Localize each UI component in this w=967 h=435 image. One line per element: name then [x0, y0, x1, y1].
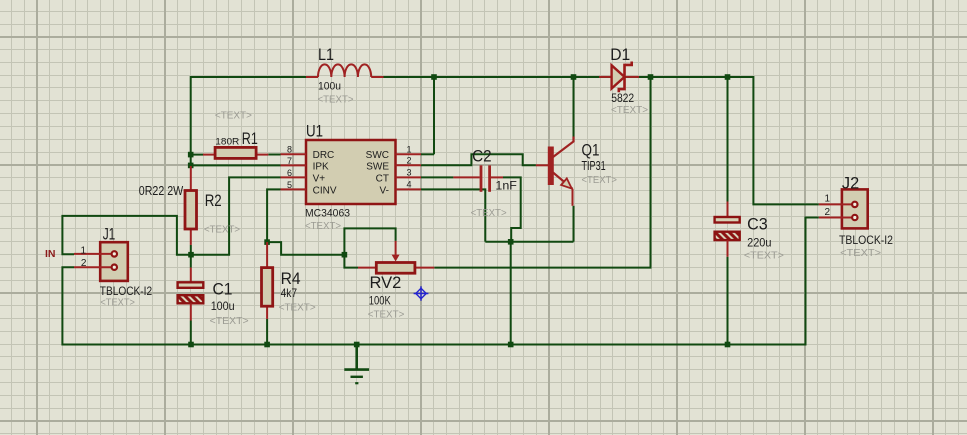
- node ground rail / C1: [188, 342, 194, 348]
- svg-text:3: 3: [407, 167, 412, 177]
- node rail/RV2 junction: [648, 74, 654, 80]
- svg-text:5822: 5822: [611, 91, 634, 105]
- svg-text:4k7: 4k7: [281, 286, 298, 300]
- svg-text:<TEXT>: <TEXT>: [215, 109, 252, 121]
- label R2: [139, 184, 240, 235]
- wire R2 bottom to node: [190, 245, 192, 255]
- svg-text:7: 7: [287, 156, 292, 166]
- node CINV/R4 junction: [264, 239, 270, 245]
- svg-text:<TEXT>: <TEXT>: [744, 249, 784, 261]
- svg-text:U1: U1: [306, 122, 323, 141]
- inductor L1: [306, 64, 384, 77]
- wire pin8 DRC stub to R1: [191, 154, 203, 156]
- wire pin4 V- down to emitter row: [421, 189, 485, 241]
- label Q1: [582, 141, 617, 187]
- wire pin7 IPK row: [191, 164, 281, 166]
- pin 5 stub: [281, 188, 307, 190]
- svg-text:C2: C2: [472, 147, 492, 166]
- ground: [344, 345, 369, 384]
- svg-text:MC34063: MC34063: [305, 208, 350, 220]
- pin numbers U1: [287, 144, 412, 190]
- capacitor C1 (electrolytic): [178, 268, 204, 321]
- node ground rail / gnd symbol: [354, 342, 360, 348]
- wire pin1 SWC up to rail: [433, 77, 435, 154]
- svg-text:180R: 180R: [215, 136, 239, 147]
- label D1: [610, 45, 648, 116]
- label C2: [471, 147, 517, 220]
- svg-text:TIP31: TIP31: [582, 158, 606, 173]
- wire Q1 emitter bottom: [573, 206, 575, 242]
- svg-text:<TEXT>: <TEXT>: [318, 94, 354, 106]
- svg-text:CT: CT: [376, 173, 389, 184]
- pin names U1: [313, 150, 390, 196]
- wire pin3 CT to C2: [421, 176, 453, 178]
- svg-text:<TEXT>: <TEXT>: [368, 309, 405, 321]
- svg-text:1nF: 1nF: [495, 179, 517, 193]
- svg-text:0R22 2W: 0R22 2W: [139, 184, 184, 198]
- svg-text:<TEXT>: <TEXT>: [582, 174, 617, 186]
- svg-text:100u: 100u: [211, 299, 235, 313]
- resistor R4: [262, 242, 273, 319]
- wire CINV node jog to wiper node: [267, 242, 344, 255]
- wire C1 bottom to ground rail: [190, 321, 192, 345]
- connector J1 TBLOCK-I2: [74, 242, 128, 281]
- connector J2 TBLOCK-I2: [819, 189, 868, 228]
- node rail/pin1 junction: [431, 74, 437, 80]
- origin marker: [414, 286, 429, 301]
- svg-text:4: 4: [407, 179, 412, 189]
- node V+ / R2 / C1 / J1 junction: [188, 252, 194, 258]
- wire wiper node down to RV2 left terminal: [344, 255, 358, 268]
- svg-text:L1: L1: [318, 45, 334, 64]
- label R1: [215, 109, 258, 148]
- svg-text:1: 1: [824, 194, 830, 205]
- wire wiper node up over to RV2 wiper: [344, 228, 395, 254]
- svg-text:<TEXT>: <TEXT>: [210, 315, 249, 327]
- svg-text:6: 6: [287, 168, 292, 178]
- node wiper junction: [342, 252, 348, 258]
- svg-text:CINV: CINV: [313, 185, 337, 196]
- svg-text:TBLOCK-I2: TBLOCK-I2: [839, 235, 893, 247]
- svg-text:<TEXT>: <TEXT>: [471, 207, 507, 219]
- wire top rail from L1 to right corner down to J2 pin1: [384, 77, 819, 204]
- svg-text:<TEXT>: <TEXT>: [100, 297, 134, 309]
- wire C3 bottom to ground rail: [727, 257, 729, 345]
- label J2: [824, 174, 893, 259]
- capacitor C3 (electrolytic): [715, 202, 740, 257]
- potentiometer RV2: [358, 241, 434, 273]
- label J1: [80, 225, 152, 309]
- transistor Q1 TIP31: [536, 137, 574, 206]
- svg-text:100K: 100K: [369, 293, 391, 307]
- svg-text:1: 1: [80, 245, 86, 256]
- svg-text:<TEXT>: <TEXT>: [204, 224, 240, 236]
- wire RV2 right terminal up to rail: [434, 77, 650, 268]
- pin 7 stub: [281, 164, 307, 166]
- capacitor C2: [453, 165, 503, 192]
- label RV2: [368, 273, 405, 321]
- wire pin1 SWC to riser: [421, 153, 434, 155]
- node ground rail / emitter net: [508, 342, 514, 348]
- wire emitter row to ground rail: [510, 242, 512, 345]
- svg-text:SWE: SWE: [366, 161, 389, 172]
- svg-text:D1: D1: [610, 45, 630, 64]
- svg-text:R2: R2: [205, 191, 222, 210]
- node rail/C3 junction: [725, 74, 731, 80]
- svg-text:IN: IN: [45, 248, 56, 260]
- svg-text:5: 5: [287, 180, 292, 190]
- label L1: [318, 45, 354, 106]
- wire pin2 SWE jog to Q1 base: [421, 154, 536, 165]
- wire R1 to pin8 stub: [268, 154, 280, 156]
- svg-text:RV2: RV2: [370, 273, 402, 292]
- wire C3 top to rail: [727, 77, 729, 202]
- pin 2 stub: [396, 164, 422, 166]
- svg-text:2: 2: [407, 155, 412, 165]
- pin 8 stub: [281, 153, 307, 155]
- resistor R1: [203, 147, 268, 158]
- label U1: [305, 122, 350, 233]
- svg-text:DRC: DRC: [313, 150, 335, 161]
- node rail/collector junction: [571, 74, 577, 80]
- svg-text:8: 8: [287, 144, 292, 154]
- label C3: [744, 215, 784, 262]
- svg-text:R1: R1: [242, 129, 258, 148]
- label C1: [210, 280, 249, 328]
- svg-text:220u: 220u: [747, 235, 771, 249]
- svg-text:V+: V+: [313, 173, 326, 184]
- wire emitter row: [485, 241, 573, 243]
- node ground rail / R4: [264, 342, 270, 348]
- svg-text:<TEXT>: <TEXT>: [840, 247, 881, 259]
- pin 3 stub: [396, 176, 422, 178]
- wire C2 right plate down to emitter row: [503, 177, 521, 241]
- pin 6 stub: [281, 176, 307, 178]
- svg-text:2: 2: [824, 207, 830, 218]
- svg-text:2: 2: [81, 258, 87, 269]
- svg-text:V-: V-: [380, 185, 389, 196]
- pin 4 stub: [396, 188, 422, 190]
- svg-text:J1: J1: [103, 225, 116, 244]
- svg-text:<TEXT>: <TEXT>: [611, 104, 648, 116]
- wire Q1 collector to rail: [573, 77, 575, 138]
- diode D1 5822: [599, 62, 639, 93]
- wire node to C1 top: [190, 255, 192, 268]
- node ground rail / C3: [725, 342, 731, 348]
- resistor R2: [185, 166, 197, 245]
- wire pin5 CINV down to R4 node: [267, 189, 280, 242]
- wire top rail left: R1 node up to rail, right to L1: [191, 77, 306, 166]
- node emitter row / ground drop: [508, 239, 514, 245]
- svg-text:<TEXT>: <TEXT>: [279, 302, 316, 314]
- node R2/pin7 junction: [188, 163, 194, 169]
- svg-text:1: 1: [407, 144, 412, 154]
- svg-text:C1: C1: [213, 280, 233, 299]
- svg-text:100u: 100u: [318, 80, 341, 92]
- pin 1 stub: [396, 153, 422, 155]
- node R1/pin8 junction: [188, 152, 194, 158]
- label R4: [279, 269, 316, 314]
- wire J1 pin1 loop to V+ node row and pin 6: [62, 177, 280, 254]
- wire R4 bottom to ground rail: [266, 319, 268, 345]
- svg-text:C3: C3: [747, 215, 768, 234]
- svg-text:J2: J2: [842, 174, 859, 193]
- svg-text:<TEXT>: <TEXT>: [305, 220, 341, 232]
- op-amp U1 MC34063 body: [281, 140, 422, 204]
- svg-text:Q1: Q1: [582, 141, 600, 160]
- svg-text:SWC: SWC: [366, 150, 389, 161]
- wire J1 pin2 down, bottom ground rail, up to J2 pin2: [62, 218, 818, 345]
- svg-text:IPK: IPK: [313, 161, 329, 172]
